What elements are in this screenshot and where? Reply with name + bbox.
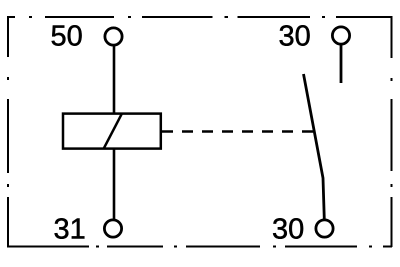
svg-text:31: 31 — [54, 214, 86, 246]
svg-text:50: 50 — [51, 21, 83, 53]
wire 30 to fixed contact — [340, 44, 343, 83]
relay coil winding — [63, 114, 161, 149]
dashed actuating link coil to contact — [162, 130, 313, 133]
svg-text:30: 30 — [279, 21, 311, 53]
terminal 30 bottom circle — [316, 220, 333, 237]
switch contact arm — [304, 74, 325, 220]
terminal 50 circle — [105, 28, 122, 45]
svg-text:30: 30 — [272, 214, 304, 246]
terminal 30 top circle — [332, 27, 349, 44]
wire 50 to coil — [113, 45, 116, 113]
terminal 31 circle — [104, 220, 121, 237]
wire coil to 31 — [113, 149, 116, 220]
